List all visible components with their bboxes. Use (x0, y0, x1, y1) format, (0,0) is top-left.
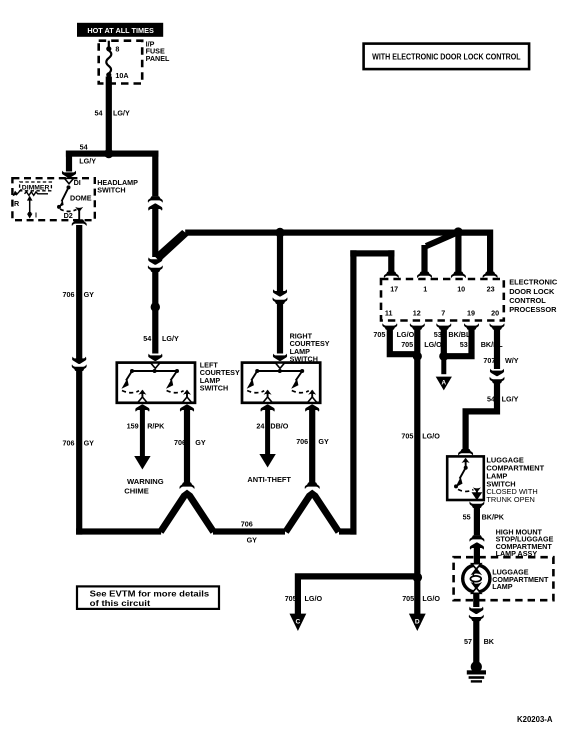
luggage switch internals (462, 458, 470, 463)
svg-text:WARNING: WARNING (127, 477, 164, 486)
junction dot main (453, 227, 463, 237)
svg-text:D: D (415, 618, 420, 625)
arrow D (409, 614, 426, 631)
hot at all times label (77, 23, 163, 37)
tent connector left (179, 482, 194, 489)
svg-text:10A: 10A (115, 71, 128, 80)
svg-text:7: 7 (441, 309, 445, 318)
svg-text:54: 54 (487, 394, 495, 403)
svg-text:GY: GY (195, 438, 206, 447)
svg-text:LG/Y: LG/Y (162, 334, 179, 343)
splice dot pins 7/19 (439, 352, 448, 361)
svg-text:SWITCH: SWITCH (200, 383, 228, 392)
left switch bottom notches (138, 397, 147, 403)
luggage switch exit arrow (472, 492, 483, 500)
see EVTM note box (77, 586, 219, 609)
svg-text:LG/Y: LG/Y (502, 394, 519, 403)
headlamp dome contact arc (dashed) (60, 209, 77, 211)
svg-text:54: 54 (143, 334, 151, 343)
connector below lamp assy (469, 615, 484, 622)
wire 55 BK/PK (474, 507, 480, 535)
svg-text:LG/O: LG/O (424, 340, 442, 349)
svg-text:19: 19 (467, 309, 475, 318)
wire riser x=353.4 from bottom bus to pin 17 feed (350, 250, 356, 534)
svg-text:CHIME: CHIME (124, 487, 148, 496)
svg-text:705: 705 (401, 340, 413, 349)
connector at luggage switch entry (458, 449, 473, 456)
svg-text:See EVTM for more details: See EVTM for more details (90, 590, 210, 599)
svg-text:DB/O: DB/O (270, 422, 288, 431)
headlamp DI contact (67, 185, 71, 189)
svg-text:DI: DI (74, 178, 81, 187)
svg-text:PROCESSOR: PROCESSOR (509, 305, 557, 314)
wire out of lamp assy (473, 593, 479, 607)
inline connector upper on 54 LG/Y drop (148, 196, 163, 203)
svg-text:DOOR LOCK: DOOR LOCK (509, 287, 555, 296)
svg-text:GY: GY (84, 290, 95, 299)
bottom bus segment middle (213, 528, 285, 534)
wire pin 19 elbow to splice (444, 329, 475, 359)
svg-text:DOME: DOME (70, 193, 92, 202)
connector below luggage switch (469, 501, 484, 508)
wire 706 GY from right switch down (305, 404, 319, 411)
svg-text:LG/Y: LG/Y (113, 109, 130, 118)
svg-text:20: 20 (491, 309, 499, 318)
wire horizontal bus at y=153.5 (66, 151, 158, 157)
bottom bus 706 GY segment left (76, 528, 161, 534)
wire down to right courtesy switch (277, 233, 283, 292)
electronic door lock control processor box (381, 279, 504, 321)
splice dot (151, 302, 160, 311)
pin 17 flare (384, 272, 399, 279)
wire to pin 23 (458, 230, 493, 273)
svg-text:159: 159 (127, 422, 139, 431)
wire 706 GY from headlamp D2 down (76, 225, 82, 359)
tent connector right (305, 482, 320, 489)
luggage compartment lamp bulb (463, 565, 490, 592)
svg-text:705: 705 (402, 594, 414, 603)
wire pin 17 stub (388, 250, 394, 272)
svg-text:LAMP: LAMP (492, 582, 513, 591)
svg-text:BK/PK: BK/PK (482, 513, 505, 522)
svg-text:53: 53 (460, 340, 468, 349)
svg-text:ELECTRONIC: ELECTRONIC (509, 278, 558, 287)
anti-theft arrow 24 DB/O (260, 404, 274, 411)
left switch entry notch (151, 363, 160, 369)
wire continues to right courtesy switch (277, 304, 283, 354)
svg-text:K20203-A: K20203-A (517, 715, 553, 724)
svg-text:HOT AT ALL TIMES: HOT AT ALL TIMES (87, 28, 154, 35)
svg-text:24: 24 (256, 422, 264, 431)
svg-text:705: 705 (401, 431, 413, 440)
dimmer rheostat R (16, 189, 48, 195)
left switch internals (126, 371, 187, 403)
svg-text:53: 53 (434, 330, 442, 339)
svg-text:706: 706 (174, 438, 186, 447)
svg-text:57: 57 (464, 637, 472, 646)
pin 10 flare (451, 272, 466, 279)
inline connector to lamp assy (469, 535, 484, 542)
pin 23 flare (483, 272, 498, 279)
wire fuse to junction, 54 LG/Y (106, 77, 112, 157)
wire pin 20 707 W/Y (494, 329, 500, 369)
svg-text:8: 8 (115, 44, 119, 53)
headlamp switch box (12, 178, 94, 220)
luggage compartment lamp switch box (447, 456, 484, 500)
svg-text:GY: GY (247, 536, 258, 545)
pin 11 connector cup (382, 323, 397, 330)
svg-text:of this circuit: of this circuit (90, 599, 151, 608)
wire pin 12 705 LG/O long drop (414, 329, 420, 625)
svg-text:R: R (14, 199, 20, 208)
arrow into right courtesy switch (273, 354, 287, 361)
wire 54 LG/Y down to left courtesy switch (152, 272, 158, 354)
bottom bus segment right (339, 528, 357, 534)
svg-text:LG/Y: LG/Y (79, 157, 96, 166)
headlamp switch entry notch (64, 178, 73, 184)
wire 706 GY lower segment to bottom bus (76, 371, 82, 535)
pin 12 connector cup (410, 323, 425, 330)
wire diagonal to pin 1 (425, 230, 460, 249)
wire from bus down at x=155 (152, 151, 158, 197)
main horizontal bus y=232.6 (185, 230, 461, 236)
pin 20 connector cup (489, 323, 504, 330)
svg-text:706: 706 (296, 437, 308, 446)
svg-text:12: 12 (413, 309, 421, 318)
svg-text:LG/O: LG/O (397, 330, 415, 339)
svg-text:GY: GY (318, 437, 329, 446)
pin 1 flare (417, 272, 432, 279)
wire 706 GY from left switch down (180, 404, 194, 411)
svg-text:705: 705 (373, 330, 385, 339)
splice dot pins 11/12 (413, 352, 422, 361)
connector at headlamp switch output (72, 219, 87, 226)
wire pin 17 feed horizontal (350, 250, 394, 256)
svg-text:GY: GY (84, 438, 95, 447)
junction dot 705 branch (413, 573, 423, 583)
arrow at merge (148, 257, 162, 264)
svg-text:11: 11 (385, 309, 393, 318)
wire pin 1 stub (421, 245, 427, 272)
svg-text:55: 55 (463, 513, 471, 522)
inline connector on right courtesy drop (272, 297, 287, 304)
right switch entry notch (275, 363, 284, 369)
wire 54 LG/Y elbow to luggage switch (463, 383, 501, 449)
headlamp switch blade (62, 187, 69, 201)
pin 19 connector cup (464, 323, 479, 330)
wire down to headlamp switch (66, 151, 72, 172)
pin 7 connector cup (436, 323, 451, 330)
svg-text:D2: D2 (64, 211, 73, 220)
svg-text:PANEL: PANEL (146, 54, 170, 63)
svg-text:LG/O: LG/O (422, 431, 440, 440)
wire continues to merge point (152, 206, 158, 257)
svg-text:705: 705 (285, 594, 297, 603)
svg-text:A: A (441, 379, 446, 386)
wire diagonal from main bus (154, 230, 189, 262)
right switch bottom notches (263, 397, 272, 403)
warning chime arrow 159 R/PK (135, 404, 149, 411)
inline connector on 706 GY wire (72, 357, 86, 364)
svg-text:SWITCH: SWITCH (290, 354, 318, 363)
svg-text:54: 54 (80, 142, 88, 151)
svg-text:BK: BK (484, 637, 495, 646)
ground G (471, 661, 482, 672)
svg-text:10: 10 (457, 285, 465, 294)
svg-text:SWITCH: SWITCH (97, 185, 125, 194)
arrow into left courtesy switch (148, 354, 162, 361)
svg-text:23: 23 (487, 285, 495, 294)
svg-text:1: 1 (423, 285, 427, 294)
svg-text:706: 706 (63, 290, 75, 299)
I/P fuse panel box (99, 41, 143, 84)
lamp filament (473, 572, 476, 587)
svg-text:I: I (35, 210, 37, 219)
wire arrow A drop (441, 356, 446, 374)
svg-text:706: 706 (63, 438, 75, 447)
right switch internals (251, 371, 312, 403)
svg-text:54: 54 (95, 109, 103, 118)
wire pin 11 elbow to splice (387, 329, 418, 357)
svg-text:C: C (296, 618, 301, 625)
svg-text:LG/O: LG/O (305, 594, 323, 603)
arrow C (290, 614, 307, 631)
wire pin 7 stub (441, 329, 447, 357)
svg-text:DIMMER: DIMMER (22, 184, 50, 191)
left courtesy lamp switch box (117, 363, 195, 403)
svg-text:707: 707 (483, 356, 495, 365)
fuse F8 10A (106, 41, 128, 80)
arrow on right courtesy drop (273, 289, 287, 296)
headlamp D2 contact (75, 207, 83, 212)
wire pin 10 stub (455, 232, 461, 272)
wire 705 LG/O horizontal to C (295, 573, 418, 614)
right courtesy lamp switch box (242, 363, 320, 403)
high mount lamp assy box (454, 557, 554, 600)
svg-text:R/PK: R/PK (147, 422, 165, 431)
right tent (283, 490, 342, 534)
svg-text:17: 17 (390, 285, 398, 294)
wire 57 BK to ground (473, 621, 479, 663)
dimmer dashed box (20, 182, 52, 191)
svg-text:706: 706 (241, 519, 253, 528)
left tent (158, 490, 217, 534)
inline connector below merge (148, 265, 163, 272)
dimmer wiper arrow I (29, 199, 31, 216)
svg-text:ANTI-THEFT: ANTI-THEFT (247, 475, 291, 484)
arrow into headlamp switch (62, 171, 76, 178)
with electronic door lock control banner (364, 44, 529, 70)
arrow below lamp assy (469, 607, 483, 614)
svg-text:TRUNK OPEN: TRUNK OPEN (486, 495, 534, 504)
svg-text:LG/O: LG/O (422, 594, 440, 603)
svg-text:WITH ELECTRONIC DOOR LOCK CONT: WITH ELECTRONIC DOOR LOCK CONTROL (372, 52, 521, 61)
wire into lamp assy (474, 545, 480, 563)
svg-text:W/Y: W/Y (505, 356, 519, 365)
junction dot fuse/headlamp (104, 149, 113, 158)
svg-text:BK/BL: BK/BL (448, 330, 471, 339)
svg-text:CONTROL: CONTROL (509, 296, 546, 305)
inline connector on pin 20 wire (490, 369, 504, 376)
junction dot right courtesy branch (275, 228, 285, 238)
